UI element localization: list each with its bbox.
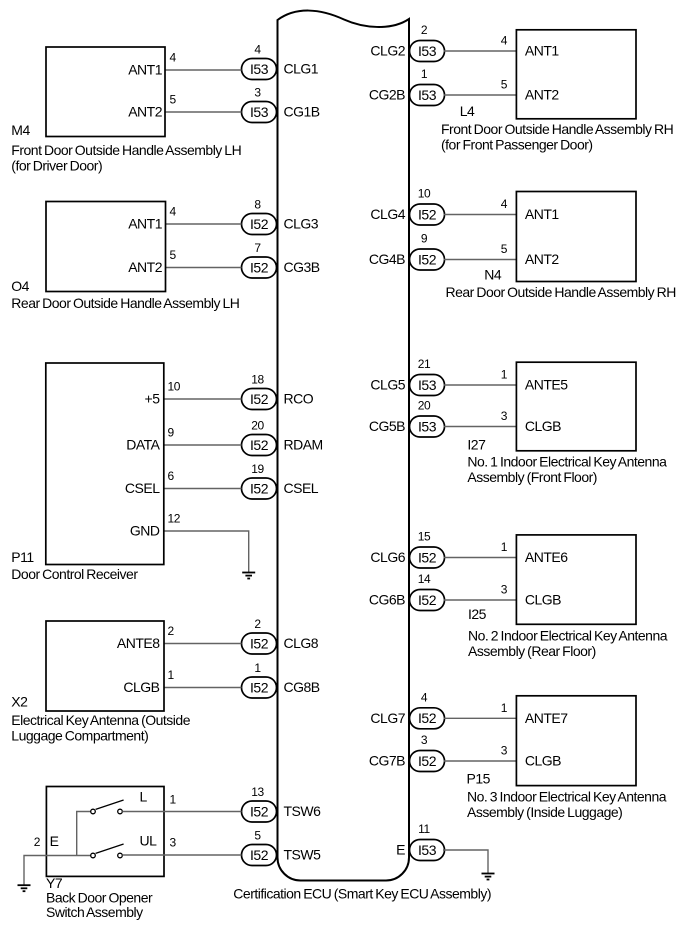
connector I52 terminal CSEL (left) xyxy=(242,462,319,499)
svg-text:5: 5 xyxy=(501,78,508,92)
P11 terminal CSEL pin 6 xyxy=(125,469,175,496)
caption I25 xyxy=(468,628,668,660)
wire xyxy=(164,444,242,446)
svg-text:CG2B: CG2B xyxy=(369,87,405,103)
svg-text:GND: GND xyxy=(130,523,160,539)
svg-text:ANT1: ANT1 xyxy=(128,216,163,232)
box L4 xyxy=(516,30,636,119)
box P15 xyxy=(516,696,636,786)
svg-text:3: 3 xyxy=(501,583,508,597)
wire ECU E to ground xyxy=(443,850,488,873)
X2 terminal CLGB pin 1 xyxy=(123,668,174,695)
svg-text:CG5B: CG5B xyxy=(369,418,405,434)
wire xyxy=(164,488,242,490)
Y7 terminal E pin 2 xyxy=(34,833,59,849)
svg-text:CLG4: CLG4 xyxy=(370,206,405,222)
svg-text:4: 4 xyxy=(254,43,261,57)
connector I53 terminal CG2B (right) xyxy=(369,67,445,105)
svg-text:9: 9 xyxy=(421,232,428,246)
connector I53 terminal CLG2 (right) xyxy=(370,23,444,61)
svg-text:CG3B: CG3B xyxy=(284,259,320,275)
P15 terminal ANTE7 pin 1 xyxy=(501,701,569,726)
connector I53 terminal CG5B (right) xyxy=(369,399,445,437)
svg-text:5: 5 xyxy=(170,248,177,262)
svg-text:UL: UL xyxy=(140,833,158,849)
caption I27 xyxy=(467,454,667,485)
wire xyxy=(444,259,517,261)
svg-text:1: 1 xyxy=(501,701,508,715)
svg-text:Rear Door Outside Handle Assem: Rear Door Outside Handle Assembly LH xyxy=(11,295,239,311)
connector I52 terminal TSW6 (left) xyxy=(242,785,322,822)
connector I52 terminal CG6B (right) xyxy=(369,572,445,610)
ground (Y7 E) xyxy=(18,885,31,891)
svg-text:CSEL: CSEL xyxy=(284,480,319,496)
svg-text:(for Front Passenger Door): (for Front Passenger Door) xyxy=(441,136,593,152)
connector I53 terminal CG1B (left) xyxy=(242,86,320,123)
svg-text:P15: P15 xyxy=(467,771,491,787)
svg-text:RCO: RCO xyxy=(284,391,314,407)
svg-text:5: 5 xyxy=(501,242,508,256)
svg-text:P11: P11 xyxy=(11,549,34,565)
connector I52 terminal RCO (left) xyxy=(242,373,314,410)
svg-text:ANT2: ANT2 xyxy=(525,251,560,267)
P11 terminal GND pin 12 xyxy=(130,512,181,539)
svg-text:I53: I53 xyxy=(250,61,269,77)
svg-text:ANT2: ANT2 xyxy=(128,259,163,275)
I27 terminal ANTE5 pin 1 xyxy=(501,368,569,393)
svg-text:11: 11 xyxy=(418,822,430,836)
svg-text:ANTE5: ANTE5 xyxy=(525,377,568,393)
wire Y7 UL pin3 to TSW5 xyxy=(122,854,241,856)
svg-text:TSW6: TSW6 xyxy=(284,803,322,819)
switch L (upper) xyxy=(91,800,124,814)
svg-text:CLG8: CLG8 xyxy=(284,635,319,651)
N4 terminal ANT2 pin 5 xyxy=(501,242,560,267)
svg-text:CG1B: CG1B xyxy=(284,104,320,120)
svg-text:10: 10 xyxy=(418,187,431,201)
svg-text:1: 1 xyxy=(254,661,261,675)
svg-text:I52: I52 xyxy=(250,391,269,407)
P11 terminal +5 pin 10 xyxy=(145,380,181,407)
wire xyxy=(166,267,242,269)
svg-text:5: 5 xyxy=(254,829,261,843)
svg-text:I27: I27 xyxy=(467,437,486,453)
ground (P11 GND) xyxy=(242,573,255,579)
svg-text:20: 20 xyxy=(251,419,264,433)
svg-text:I52: I52 xyxy=(418,549,437,565)
svg-text:4: 4 xyxy=(501,197,508,211)
svg-text:18: 18 xyxy=(251,373,264,387)
svg-text:CLG7: CLG7 xyxy=(370,710,405,726)
caption N4 xyxy=(446,284,676,300)
svg-text:I52: I52 xyxy=(250,259,269,275)
connector I52 terminal RDAM (left) xyxy=(242,419,323,456)
svg-text:RDAM: RDAM xyxy=(284,437,323,453)
connector I52 terminal CG3B (left) xyxy=(242,241,320,278)
svg-text:14: 14 xyxy=(418,572,431,586)
svg-text:2: 2 xyxy=(168,624,175,638)
svg-text:9: 9 xyxy=(168,426,175,440)
svg-text:CG4B: CG4B xyxy=(369,251,405,267)
svg-text:I52: I52 xyxy=(250,803,269,819)
switch UL (lower) xyxy=(91,844,124,858)
svg-text:Electrical Key Antenna (Outsid: Electrical Key Antenna (Outside xyxy=(11,712,190,728)
svg-text:3: 3 xyxy=(254,86,261,100)
L4 terminal ANT1 pin 4 xyxy=(501,34,560,59)
svg-text:Door Control Receiver: Door Control Receiver xyxy=(11,566,138,582)
svg-text:3: 3 xyxy=(501,744,508,758)
M4 terminal ANT1 pin 4 xyxy=(128,51,176,78)
svg-text:ANT1: ANT1 xyxy=(525,206,560,222)
svg-text:CG7B: CG7B xyxy=(369,753,405,769)
svg-text:CLG3: CLG3 xyxy=(284,216,319,232)
connector I52 terminal CG7B (right) xyxy=(369,733,445,771)
svg-text:5: 5 xyxy=(170,93,177,107)
wire xyxy=(444,557,517,559)
O4 terminal ANT2 pin 5 xyxy=(128,248,176,275)
wire xyxy=(444,760,517,762)
svg-text:ANT2: ANT2 xyxy=(525,87,560,103)
svg-text:I52: I52 xyxy=(250,635,269,651)
svg-text:I53: I53 xyxy=(418,43,437,59)
X2 terminal ANTE8 pin 2 xyxy=(117,624,175,651)
wire Y7 E net (ground run) xyxy=(24,856,91,886)
svg-text:DATA: DATA xyxy=(126,437,160,453)
svg-text:Certification ECU (Smart Key E: Certification ECU (Smart Key ECU Assembl… xyxy=(233,885,491,901)
svg-text:1: 1 xyxy=(168,668,175,682)
caption P15 xyxy=(467,788,667,820)
box Y7 Back Door Opener Switch Assembly xyxy=(46,787,164,877)
wire xyxy=(444,50,517,52)
svg-text:ANT1: ANT1 xyxy=(525,43,560,59)
svg-text:I52: I52 xyxy=(250,679,269,695)
connector I53 terminal E (right) xyxy=(396,822,444,860)
svg-text:2: 2 xyxy=(421,23,428,37)
svg-text:I25: I25 xyxy=(468,606,487,622)
svg-text:E: E xyxy=(396,842,405,858)
svg-text:CLGB: CLGB xyxy=(525,592,561,608)
connector I52 terminal CG8B (left) xyxy=(242,661,320,698)
svg-text:Front Door Outside Handle Asse: Front Door Outside Handle Assembly LH xyxy=(11,142,241,158)
svg-text:L: L xyxy=(140,789,148,805)
svg-text:No. 1 Indoor Electrical Key An: No. 1 Indoor Electrical Key Antenna xyxy=(467,454,667,470)
svg-text:2: 2 xyxy=(254,617,261,631)
box X2 Electrical Key Antenna xyxy=(46,621,164,711)
svg-text:CLG1: CLG1 xyxy=(284,61,319,77)
svg-text:3: 3 xyxy=(421,733,428,747)
wire xyxy=(166,223,242,225)
svg-text:E: E xyxy=(50,833,59,849)
P11 terminal DATA pin 9 xyxy=(126,426,174,453)
svg-text:8: 8 xyxy=(254,198,261,212)
I25 terminal ANTE6 pin 1 xyxy=(501,540,569,565)
ECU body: Certification ECU (Smart Key ECU Assembly) xyxy=(278,11,410,881)
caption Y7 xyxy=(46,890,153,921)
svg-text:N4: N4 xyxy=(484,267,502,283)
connector I52 terminal CLG4 (right) xyxy=(370,187,444,225)
svg-text:Front Door Outside Handle Asse: Front Door Outside Handle Assembly RH xyxy=(441,121,673,137)
svg-text:I52: I52 xyxy=(250,480,269,496)
svg-text:Assembly (Inside Luggage): Assembly (Inside Luggage) xyxy=(467,804,622,820)
connector I52 terminal CLG8 (left) xyxy=(242,617,319,654)
svg-text:3: 3 xyxy=(501,409,508,423)
svg-text:CLGB: CLGB xyxy=(525,753,561,769)
svg-text:CSEL: CSEL xyxy=(125,480,160,496)
svg-text:CLG6: CLG6 xyxy=(370,549,405,565)
caption X2 xyxy=(11,712,190,743)
box P11 Door Control Receiver xyxy=(46,363,164,565)
wire xyxy=(444,717,517,719)
svg-text:I53: I53 xyxy=(418,87,437,103)
svg-text:Rear Door Outside Handle Assem: Rear Door Outside Handle Assembly RH xyxy=(446,284,676,300)
svg-text:I52: I52 xyxy=(418,592,437,608)
svg-text:19: 19 xyxy=(251,462,264,476)
wire Y7 L pin1 to TSW6 xyxy=(122,811,241,813)
svg-text:I52: I52 xyxy=(250,437,269,453)
svg-text:10: 10 xyxy=(168,380,181,394)
wire xyxy=(444,94,517,96)
connector I52 terminal CG4B (right) xyxy=(369,232,445,270)
wire xyxy=(444,599,517,601)
Y7 terminal UL pin 3 xyxy=(140,833,177,850)
box N4 xyxy=(516,192,636,282)
svg-text:1: 1 xyxy=(170,793,177,807)
wire xyxy=(444,426,517,428)
svg-text:I52: I52 xyxy=(418,753,437,769)
wire xyxy=(164,398,242,400)
P15 terminal CLGB pin 3 xyxy=(501,744,561,769)
svg-text:1: 1 xyxy=(501,540,508,554)
svg-text:20: 20 xyxy=(418,399,431,413)
svg-text:12: 12 xyxy=(168,512,181,526)
svg-text:Switch Assembly: Switch Assembly xyxy=(46,904,143,920)
svg-text:6: 6 xyxy=(168,469,175,483)
svg-text:2: 2 xyxy=(34,835,41,849)
svg-text:ANT2: ANT2 xyxy=(128,104,163,120)
connector I52 terminal CLG7 (right) xyxy=(370,691,444,729)
svg-text:I53: I53 xyxy=(250,104,269,120)
svg-text:Luggage Compartment): Luggage Compartment) xyxy=(11,728,148,744)
caption M4 xyxy=(11,142,241,174)
svg-text:ANTE8: ANTE8 xyxy=(117,635,160,651)
svg-text:15: 15 xyxy=(418,530,431,544)
svg-text:M4: M4 xyxy=(11,122,30,138)
box I25 xyxy=(516,535,636,624)
svg-text:No. 3 Indoor Electrical Key An: No. 3 Indoor Electrical Key Antenna xyxy=(467,788,667,804)
svg-text:4: 4 xyxy=(421,691,428,705)
svg-text:ANT1: ANT1 xyxy=(128,62,163,78)
wire P11 GND to ground xyxy=(164,531,249,572)
connector I52 terminal CLG6 (right) xyxy=(370,530,444,568)
svg-text:I53: I53 xyxy=(418,418,437,434)
svg-text:Y7: Y7 xyxy=(46,875,63,891)
I27 terminal CLGB pin 3 xyxy=(501,409,561,434)
svg-text:X2: X2 xyxy=(11,693,28,709)
svg-text:CLGB: CLGB xyxy=(525,418,561,434)
svg-text:7: 7 xyxy=(254,241,261,255)
wire xyxy=(164,687,242,689)
ground (ECU E) xyxy=(482,874,495,880)
svg-text:+5: +5 xyxy=(145,391,161,407)
svg-text:4: 4 xyxy=(170,205,177,219)
svg-text:No. 2 Indoor Electrical Key An: No. 2 Indoor Electrical Key Antenna xyxy=(468,628,668,644)
svg-text:Assembly (Rear Floor): Assembly (Rear Floor) xyxy=(468,643,596,659)
svg-text:1: 1 xyxy=(421,67,428,81)
svg-text:ANTE6: ANTE6 xyxy=(525,549,568,565)
svg-text:Back Door Opener: Back Door Opener xyxy=(46,890,153,906)
wire xyxy=(165,111,242,113)
svg-text:I53: I53 xyxy=(418,842,437,858)
svg-text:ANTE7: ANTE7 xyxy=(525,710,568,726)
svg-text:I52: I52 xyxy=(418,206,437,222)
svg-text:Assembly (Front Floor): Assembly (Front Floor) xyxy=(467,469,597,485)
svg-text:CLGB: CLGB xyxy=(123,679,159,695)
svg-text:13: 13 xyxy=(251,785,264,799)
svg-text:CLG2: CLG2 xyxy=(370,43,405,59)
svg-text:TSW5: TSW5 xyxy=(284,847,322,863)
svg-text:1: 1 xyxy=(501,368,508,382)
wire xyxy=(164,643,242,645)
svg-text:4: 4 xyxy=(170,51,177,65)
M4 terminal ANT2 pin 5 xyxy=(128,93,176,120)
L4 terminal ANT2 pin 5 xyxy=(501,78,560,103)
box M4 Front Door Outside Handle Assembly LH xyxy=(46,47,165,137)
box O4 Rear Door Outside Handle Assembly LH xyxy=(46,202,166,292)
O4 terminal ANT1 pin 4 xyxy=(128,205,176,232)
svg-text:I53: I53 xyxy=(418,377,437,393)
svg-text:CG8B: CG8B xyxy=(284,679,320,695)
wire xyxy=(444,214,517,216)
I25 terminal CLGB pin 3 xyxy=(501,583,561,608)
N4 terminal ANT1 pin 4 xyxy=(501,197,560,222)
connector I53 terminal CLG1 (left) xyxy=(242,43,319,80)
Y7 terminal L pin 1 xyxy=(140,789,177,807)
box I27 xyxy=(516,362,636,451)
wire xyxy=(165,69,242,71)
svg-text:21: 21 xyxy=(418,357,431,371)
svg-text:I52: I52 xyxy=(250,216,269,232)
svg-text:I52: I52 xyxy=(418,251,437,267)
connector I53 terminal CLG5 (right) xyxy=(370,357,444,395)
svg-text:CG6B: CG6B xyxy=(369,592,405,608)
connector I52 terminal TSW5 (left) xyxy=(242,829,322,866)
wire Y7 branch to switch L xyxy=(77,812,91,856)
connector I52 terminal CLG3 (left) xyxy=(242,198,319,235)
svg-text:CLG5: CLG5 xyxy=(370,377,405,393)
caption L4 xyxy=(441,121,673,152)
svg-text:4: 4 xyxy=(501,34,508,48)
svg-text:L4: L4 xyxy=(460,103,475,119)
svg-text:(for Driver Door): (for Driver Door) xyxy=(11,158,102,174)
wire xyxy=(444,384,517,386)
svg-text:I52: I52 xyxy=(418,710,437,726)
svg-text:I52: I52 xyxy=(250,847,269,863)
svg-text:O4: O4 xyxy=(11,278,29,294)
svg-text:3: 3 xyxy=(170,836,177,850)
